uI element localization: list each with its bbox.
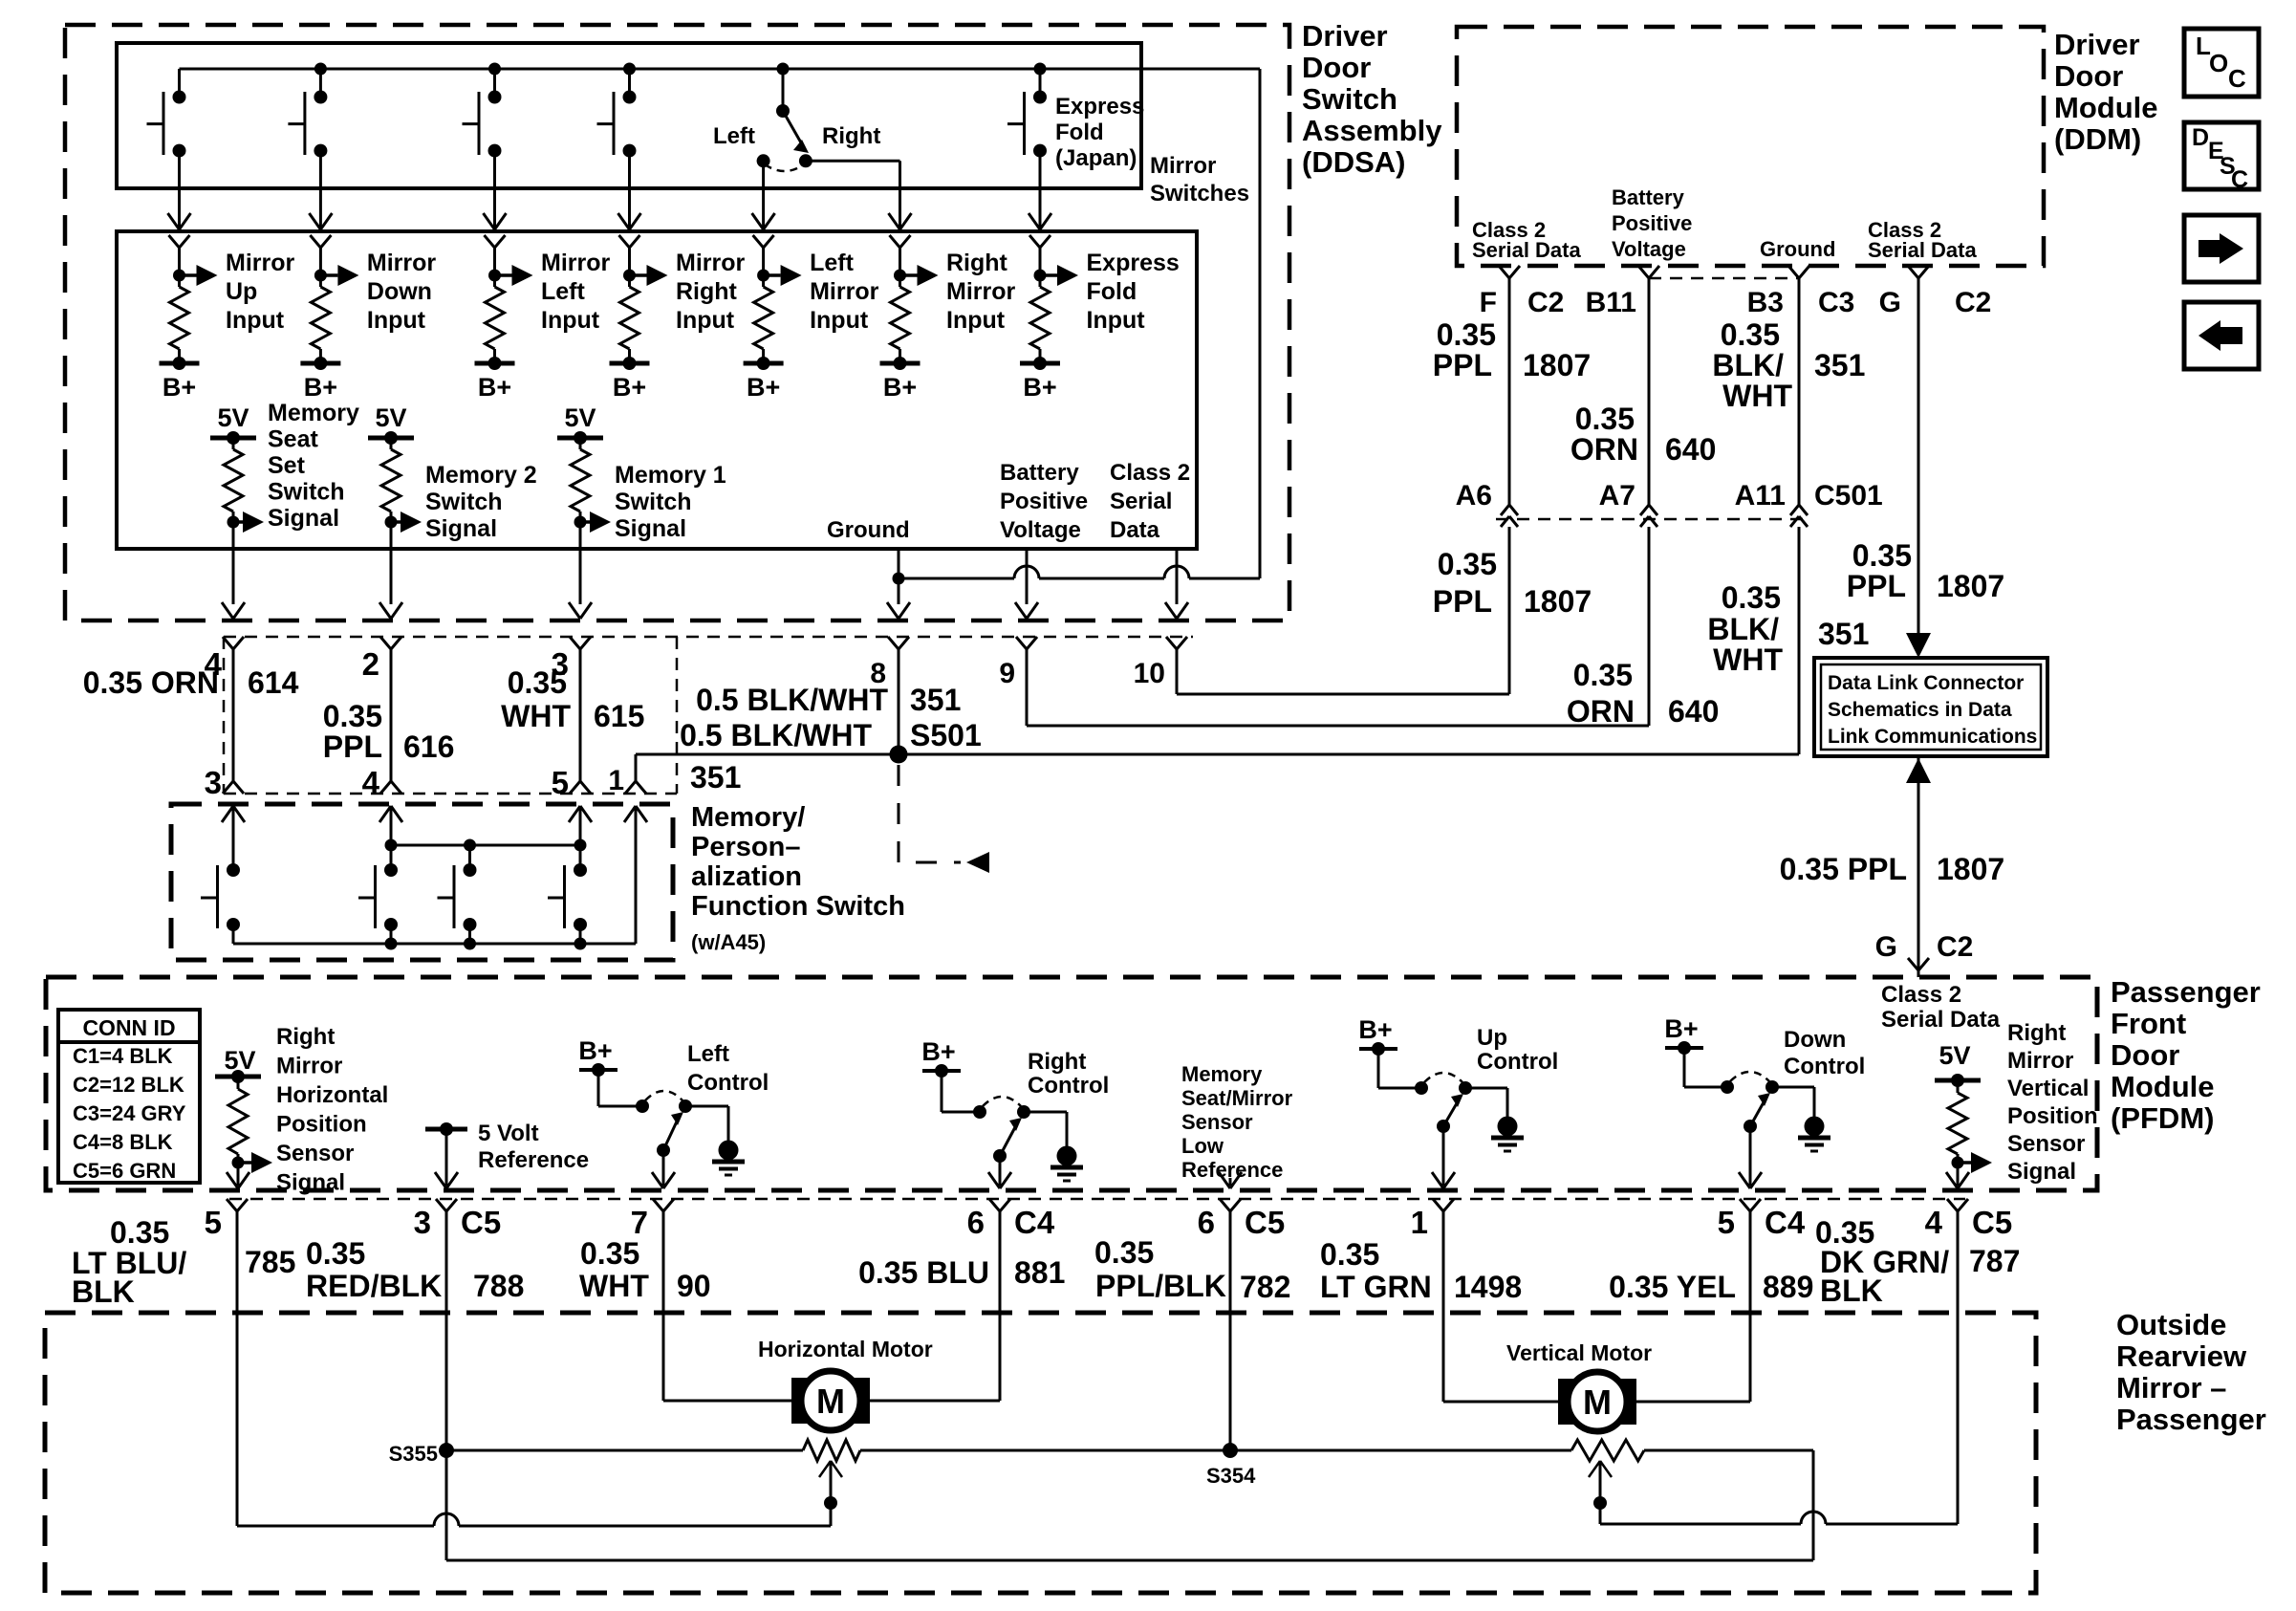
svg-text:BLK/: BLK/ [1707, 612, 1779, 646]
label Down Control [1784, 1027, 1865, 1079]
svg-text:Express: Express [1087, 250, 1180, 276]
svg-text:616: 616 [403, 729, 454, 764]
label Ground [827, 517, 910, 543]
svg-text:B+: B+ [1358, 1015, 1392, 1044]
wire label 0.35 DK GRN/ BLK 787 [1815, 1215, 2020, 1308]
svg-text:Seat: Seat [268, 426, 318, 453]
label Right Mirror Input [946, 250, 1016, 334]
svg-text:Mirror: Mirror [810, 278, 879, 305]
label Battery Positive Voltage [1000, 460, 1088, 543]
DDM internal label Ground [1760, 237, 1835, 261]
svg-text:WHT: WHT [1713, 642, 1783, 677]
svg-text:BLK: BLK [1820, 1274, 1883, 1308]
svg-text:1: 1 [608, 765, 624, 796]
svg-text:Voltage: Voltage [1612, 237, 1686, 261]
wire label 0.35 PPL 1807 (below DLC) [1780, 852, 2005, 886]
svg-text:0.5 BLK/WHT: 0.5 BLK/WHT [680, 718, 872, 752]
svg-text:Horizontal Motor: Horizontal Motor [758, 1337, 933, 1361]
svg-text:Control: Control [687, 1070, 769, 1096]
svg-text:Door: Door [1302, 51, 1371, 84]
wire DLC to PFDM G [1906, 758, 1931, 977]
label Right [822, 123, 880, 149]
svg-text:0.35 YEL: 0.35 YEL [1609, 1270, 1736, 1304]
wire into box B with arrow [618, 188, 641, 229]
wire pin1 to vertical motor [1443, 1211, 1559, 1402]
receptacle pin [485, 235, 506, 248]
splice S354 [1206, 1211, 1256, 1488]
splice S501 [890, 746, 908, 764]
wire into box B with arrow [484, 188, 507, 229]
svg-text:C5=6 GRN: C5=6 GRN [73, 1159, 176, 1183]
connector pin 4/3 [205, 637, 244, 800]
B+ terminal [162, 373, 196, 402]
memory switch common bus [233, 808, 636, 950]
connector pin 4 [1925, 1199, 2013, 1240]
svg-text:Data Link Connector: Data Link Connector [1828, 672, 2024, 694]
connector pin 3/5 [552, 637, 591, 800]
svg-text:0.35: 0.35 [1437, 317, 1496, 352]
svg-text:Assembly: Assembly [1302, 114, 1442, 147]
connector pin 6 [1198, 1199, 1286, 1240]
wire A7 down to battery run [1648, 527, 1651, 726]
svg-text:Left: Left [810, 250, 855, 276]
svg-text:Input: Input [676, 307, 735, 334]
svg-text:Mirror: Mirror [946, 278, 1016, 305]
svg-text:Serial: Serial [1110, 489, 1172, 514]
svg-text:5V: 5V [1939, 1041, 1970, 1070]
svg-text:5V: 5V [375, 403, 406, 432]
svg-text:Up: Up [1477, 1025, 1507, 1051]
svg-text:1807: 1807 [1937, 852, 2004, 886]
switch: right mirror control [921, 1037, 1083, 1188]
svg-text:Memory 1: Memory 1 [615, 462, 726, 489]
svg-text:C: C [2228, 64, 2246, 93]
svg-text:C2: C2 [1937, 931, 1973, 963]
svg-text:0.5 BLK/WHT: 0.5 BLK/WHT [696, 683, 888, 717]
connector pin A7 [1599, 480, 1657, 527]
wire label 0.5 BLK/WHT S501 [680, 718, 982, 752]
wire: low reference stub [1219, 1172, 1242, 1188]
wire A6 down to class2 run [1508, 527, 1511, 694]
svg-text:LT GRN: LT GRN [1320, 1270, 1432, 1304]
svg-text:Fold: Fold [1055, 120, 1104, 145]
svg-text:0.35: 0.35 [1852, 538, 1912, 573]
resistor: Memory 2 Switch Signal [381, 438, 422, 547]
potentiometer: horizontal position [446, 1440, 1230, 1461]
svg-text:Signal: Signal [425, 515, 497, 542]
label memory seat/mirror sensor low reference [1181, 1062, 1293, 1182]
svg-text:Mirror: Mirror [367, 250, 437, 276]
svg-text:WHT: WHT [1722, 379, 1792, 413]
svg-text:Door: Door [2111, 1038, 2179, 1072]
svg-text:C3=24 GRY: C3=24 GRY [73, 1101, 186, 1125]
wire label 0.35 LT GRN 1498 [1320, 1237, 1522, 1304]
svg-text:C4=8 BLK: C4=8 BLK [73, 1130, 173, 1154]
svg-text:9: 9 [999, 658, 1015, 689]
wire G down to DLC [1906, 278, 1931, 658]
svg-text:1807: 1807 [1937, 569, 2004, 603]
svg-text:1498: 1498 [1454, 1270, 1522, 1304]
5V supply [368, 403, 414, 445]
switch: mirror down switch [288, 69, 327, 188]
svg-text:Serial Data: Serial Data [1472, 238, 1581, 262]
button DESC [2184, 122, 2259, 193]
svg-text:A7: A7 [1599, 480, 1635, 512]
wire label 0.35 PPL 1807 (upper) [1433, 317, 1591, 382]
resistor: Memory Seat Set Switch Signal [224, 438, 264, 547]
wire label 0.35 ORN 640 (upper) [1570, 402, 1717, 467]
svg-text:Signal: Signal [2007, 1159, 2076, 1185]
potentiometer: vertical position [1230, 1440, 1813, 1461]
svg-text:Input: Input [810, 307, 869, 334]
label 5 Volt Reference [478, 1121, 589, 1173]
svg-text:Left: Left [713, 123, 755, 149]
label Right Control [1028, 1049, 1109, 1099]
svg-text:O: O [2209, 49, 2228, 77]
wire label 0.35 PPL/BLK 782 [1094, 1235, 1290, 1304]
svg-text:B3: B3 [1747, 287, 1784, 318]
svg-text:Class 2: Class 2 [1881, 982, 1961, 1008]
svg-text:Right: Right [676, 278, 738, 305]
svg-text:PPL: PPL [1433, 584, 1492, 619]
svg-text:Module: Module [2054, 91, 2158, 124]
svg-text:Right: Right [822, 123, 880, 149]
wire: switch common bus to ground [180, 63, 1261, 579]
svg-text:(PFDM): (PFDM) [2111, 1101, 2214, 1135]
svg-text:Sensor: Sensor [2007, 1131, 2085, 1157]
5V supply (horizontal sensor) [215, 1046, 261, 1083]
wire: class 2 data out of box B [1165, 547, 1188, 619]
wire: battery voltage out of box B [1015, 547, 1038, 619]
svg-text:90: 90 [677, 1269, 711, 1303]
wire: class2 run to DDM F [1177, 693, 1509, 696]
data link connector reference box [1814, 658, 2047, 756]
wire into box B with arrow [168, 188, 191, 229]
5V supply [557, 403, 603, 445]
svg-text:0.35: 0.35 [1575, 402, 1635, 436]
svg-text:Signal: Signal [268, 505, 339, 532]
resistor: Memory 1 Switch Signal [571, 438, 611, 547]
svg-text:782: 782 [1240, 1270, 1290, 1304]
svg-text:1807: 1807 [1523, 348, 1591, 382]
svg-text:Fold: Fold [1087, 278, 1137, 305]
svg-text:BLK/: BLK/ [1712, 348, 1784, 382]
svg-text:S355: S355 [389, 1442, 438, 1466]
svg-text:0.35 ORN: 0.35 ORN [83, 665, 219, 700]
svg-text:Switch: Switch [1302, 82, 1397, 116]
svg-text:B+: B+ [478, 373, 511, 402]
svg-text:Signal: Signal [276, 1170, 345, 1196]
connector pin 3 [414, 1199, 502, 1240]
wire label 0.35 BLK/WHT 351 (upper) [1712, 317, 1865, 413]
svg-text:Front: Front [2111, 1007, 2186, 1040]
svg-text:Data: Data [1110, 517, 1160, 543]
wire label 0.35 PPL 616 [323, 699, 455, 764]
wire vertical motor to pin5 [1635, 1211, 1750, 1402]
svg-text:6: 6 [1198, 1205, 1215, 1240]
svg-text:C2=12 BLK: C2=12 BLK [73, 1073, 184, 1097]
svg-text:S354: S354 [1206, 1464, 1256, 1488]
svg-text:C2: C2 [1527, 287, 1564, 318]
svg-text:PPL: PPL [323, 729, 382, 764]
svg-text:351: 351 [1818, 617, 1869, 651]
svg-text:5: 5 [1718, 1205, 1735, 1240]
svg-text:1: 1 [1411, 1205, 1428, 1240]
svg-text:Passenger: Passenger [2116, 1403, 2266, 1436]
svg-text:351: 351 [1814, 348, 1865, 382]
wire into box B with arrow [1029, 188, 1051, 229]
memory/personalization switch dashed box [171, 804, 673, 960]
svg-text:Link Communications: Link Communications [1828, 726, 2037, 748]
DDM pin B3/C3 [1747, 266, 1855, 318]
svg-text:351: 351 [690, 760, 741, 795]
wire pin4 to vertical wiper [1600, 1211, 1958, 1524]
wire label 0.35 YEL 889 [1609, 1270, 1813, 1304]
svg-text:5: 5 [205, 1205, 222, 1240]
svg-text:C501: C501 [1814, 480, 1883, 512]
wire into box B with arrow [752, 188, 775, 229]
svg-text:Right: Right [276, 1024, 335, 1050]
svg-text:0.35: 0.35 [1320, 1237, 1379, 1272]
svg-text:Mirror: Mirror [276, 1054, 342, 1079]
svg-text:Door: Door [2054, 59, 2123, 93]
svg-text:788: 788 [473, 1269, 524, 1303]
svg-text:C4: C4 [1765, 1205, 1806, 1240]
button LOC [2184, 29, 2259, 97]
switch: express fold (Japan) [1007, 69, 1047, 188]
wire B3 to A11 [1798, 278, 1801, 505]
svg-text:640: 640 [1668, 694, 1719, 729]
svg-text:0.35: 0.35 [1094, 1235, 1154, 1270]
label right mirror vertical position sensor signal [2007, 1020, 2098, 1185]
B+ terminal [1023, 373, 1056, 402]
switch: mirror right switch [597, 69, 637, 188]
connector pin 8 [870, 637, 909, 754]
wire into memory box [379, 806, 402, 845]
svg-text:889: 889 [1763, 1270, 1813, 1304]
switch: left mirror control [578, 1036, 745, 1188]
CONN ID table [58, 1010, 200, 1183]
svg-text:Horizontal: Horizontal [276, 1082, 388, 1108]
svg-text:2: 2 [362, 646, 379, 682]
svg-text:4: 4 [1925, 1205, 1943, 1240]
DDM pin F/C2 [1480, 266, 1565, 318]
svg-text:B+: B+ [613, 373, 646, 402]
svg-text:Voltage: Voltage [1000, 517, 1081, 543]
label Left [713, 123, 755, 149]
svg-text:Left: Left [687, 1041, 729, 1067]
svg-text:615: 615 [594, 699, 644, 733]
svg-text:Right: Right [2007, 1020, 2066, 1046]
DDM internal label Class 2 Serial Data (right) [1868, 218, 1977, 262]
mirror switches label [1150, 153, 1249, 207]
connector C501 dashed line [1496, 518, 1809, 521]
svg-text:(w/A45): (w/A45) [691, 930, 766, 954]
receptacle pin [310, 235, 331, 248]
svg-text:PPL/BLK: PPL/BLK [1095, 1269, 1226, 1303]
wire into memory box [569, 806, 592, 845]
svg-text:M: M [1583, 1382, 1612, 1422]
label Mirror Right Input [676, 250, 746, 334]
connector pin 6 [967, 1199, 1055, 1240]
svg-text:Seat/Mirror: Seat/Mirror [1181, 1086, 1293, 1110]
svg-text:(DDM): (DDM) [2054, 122, 2141, 156]
resistor: Express Fold Input [1020, 248, 1078, 370]
DDM internal label Class 2 Serial Data (left) [1472, 218, 1581, 262]
switch: memory 1 switch [438, 863, 477, 944]
svg-text:Control: Control [1477, 1049, 1558, 1075]
svg-text:Memory/: Memory/ [691, 802, 805, 833]
svg-text:Ground: Ground [827, 517, 910, 543]
switch: left/right mirror select rocker [757, 69, 812, 171]
resistor: Left Mirror Input [744, 248, 802, 370]
svg-text:Low: Low [1181, 1134, 1224, 1158]
svg-text:0.35: 0.35 [1722, 580, 1781, 615]
svg-text:Mirror –: Mirror – [2116, 1371, 2226, 1404]
wire label 0.35 BLU 881 [858, 1255, 1065, 1290]
svg-text:0.35: 0.35 [1721, 317, 1780, 352]
svg-text:Sensor: Sensor [1181, 1110, 1253, 1134]
svg-text:Switch: Switch [268, 479, 345, 506]
wire B11 to A7 [1648, 278, 1651, 505]
svg-text:Mirror: Mirror [2007, 1048, 2073, 1074]
DDM internal label Battery Positive Voltage [1612, 185, 1692, 261]
5 volt reference tap [425, 1122, 467, 1188]
svg-text:ORN: ORN [1567, 694, 1635, 729]
svg-text:Switch: Switch [425, 489, 503, 515]
svg-text:PPL: PPL [1847, 569, 1906, 603]
motor: vertical [1558, 1372, 1636, 1431]
svg-text:Up: Up [226, 278, 257, 305]
svg-text:D: D [2192, 124, 2209, 151]
wire: right select contact to column [806, 161, 900, 188]
switch: mirror left switch [463, 69, 502, 188]
svg-text:Positive: Positive [1612, 211, 1692, 235]
svg-text:3: 3 [414, 1205, 431, 1240]
switch: down mirror control [1664, 1014, 1830, 1188]
B+ terminal [613, 373, 646, 402]
svg-text:0.35: 0.35 [1573, 658, 1633, 692]
switch: memory 2 switch [358, 863, 398, 944]
resistor: Mirror Left Input [475, 248, 533, 370]
wire label 0.35 PPL 1807 (lower) [1433, 547, 1592, 619]
B+ terminal [478, 373, 511, 402]
svg-text:Left: Left [541, 278, 586, 305]
dashed stub from S501 [899, 765, 989, 873]
label Memory 1 Switch Signal [615, 462, 726, 542]
svg-text:Input: Input [226, 307, 285, 334]
svg-text:Function Switch: Function Switch [691, 891, 905, 922]
wire memory signal to connector [569, 547, 592, 619]
svg-text:S501: S501 [910, 718, 982, 752]
connector pin 5 [1718, 1199, 1806, 1240]
pin G C2 (PFDM) [1875, 931, 1974, 970]
svg-text:Down: Down [1784, 1027, 1846, 1053]
wire: left select contact down [762, 161, 765, 188]
svg-text:A6: A6 [1456, 480, 1492, 512]
svg-text:Rearview: Rearview [2116, 1339, 2247, 1373]
svg-text:Mirror: Mirror [1150, 153, 1216, 179]
resistor: right mirror vertical position sensor [1946, 1080, 1992, 1188]
connector pin 7 [631, 1199, 674, 1240]
splice S355 [389, 1442, 454, 1466]
switch: memory aux switch [548, 863, 587, 944]
svg-text:Serial Data: Serial Data [1868, 238, 1977, 262]
connector pin 9 [999, 637, 1037, 726]
connector pin 10 [1134, 637, 1187, 694]
svg-text:Memory 2: Memory 2 [425, 462, 537, 489]
svg-text:Outside: Outside [2116, 1308, 2226, 1341]
svg-text:5: 5 [552, 765, 569, 800]
label Class 2 Serial Data (PFDM) [1881, 982, 2001, 1033]
svg-text:G: G [1879, 287, 1901, 318]
svg-text:0.35 BLU: 0.35 BLU [858, 1255, 989, 1290]
svg-text:Battery: Battery [1000, 460, 1079, 486]
wire F to A6 [1508, 278, 1511, 505]
switch: up mirror control [1358, 1015, 1524, 1188]
5V supply [210, 403, 256, 445]
label Horizontal Motor [758, 1337, 933, 1361]
svg-text:787: 787 [1969, 1244, 2020, 1278]
svg-text:Down: Down [367, 278, 432, 305]
connector pin 2/4 [362, 637, 401, 800]
svg-text:C5: C5 [1972, 1205, 2012, 1240]
svg-text:10: 10 [1134, 658, 1165, 689]
svg-text:Schematics in Data: Schematics in Data [1828, 699, 2012, 721]
resistor: Right Mirror Input [880, 248, 939, 370]
connector C501 name [1814, 480, 1883, 512]
svg-text:5 Volt: 5 Volt [478, 1121, 539, 1146]
svg-text:B+: B+ [162, 373, 196, 402]
svg-text:0.35: 0.35 [110, 1215, 169, 1250]
wiper: vertical pot [1589, 1461, 1612, 1524]
label Memory 2 Switch Signal [425, 462, 537, 542]
svg-text:Position: Position [2007, 1103, 2098, 1129]
wire label 0.5 BLK/WHT 351 [696, 683, 961, 717]
receptacle pin [619, 235, 640, 248]
svg-text:ORN: ORN [1570, 432, 1638, 467]
resistor: Mirror Down Input [300, 248, 358, 370]
svg-text:Control: Control [1784, 1054, 1865, 1079]
button forward arrow [2184, 215, 2259, 282]
B+ terminal [883, 373, 917, 402]
svg-text:(DDSA): (DDSA) [1302, 145, 1406, 179]
connector pin 5 [205, 1199, 248, 1240]
resistor: Mirror Up Input [160, 248, 218, 370]
svg-text:5V: 5V [217, 403, 249, 432]
PFDM bottom connector dashed line [229, 1198, 1965, 1201]
receptacle pin [890, 235, 911, 248]
svg-text:Input: Input [541, 307, 600, 334]
label Mirror Up Input [226, 250, 295, 334]
svg-text:Input: Input [367, 307, 426, 334]
svg-text:7: 7 [631, 1205, 648, 1240]
svg-text:Module: Module [2111, 1070, 2215, 1103]
DDSA module dashed box (Driver Door Switch Assembly) [65, 25, 1289, 620]
svg-text:0.35: 0.35 [323, 699, 382, 733]
svg-text:Person–: Person– [691, 832, 800, 862]
wire into memory box [624, 806, 647, 944]
receptacle pin [753, 235, 774, 248]
svg-text:PPL: PPL [1433, 348, 1492, 382]
svg-text:C: C [2231, 166, 2248, 193]
svg-text:Position: Position [276, 1112, 367, 1138]
svg-text:Serial Data: Serial Data [1881, 1007, 2001, 1033]
svg-text:Switch: Switch [615, 489, 692, 515]
connector box (DDSA to memory switch) [224, 637, 1193, 794]
connector pin 1 [1411, 1199, 1454, 1240]
connector pin A11 [1735, 480, 1808, 527]
